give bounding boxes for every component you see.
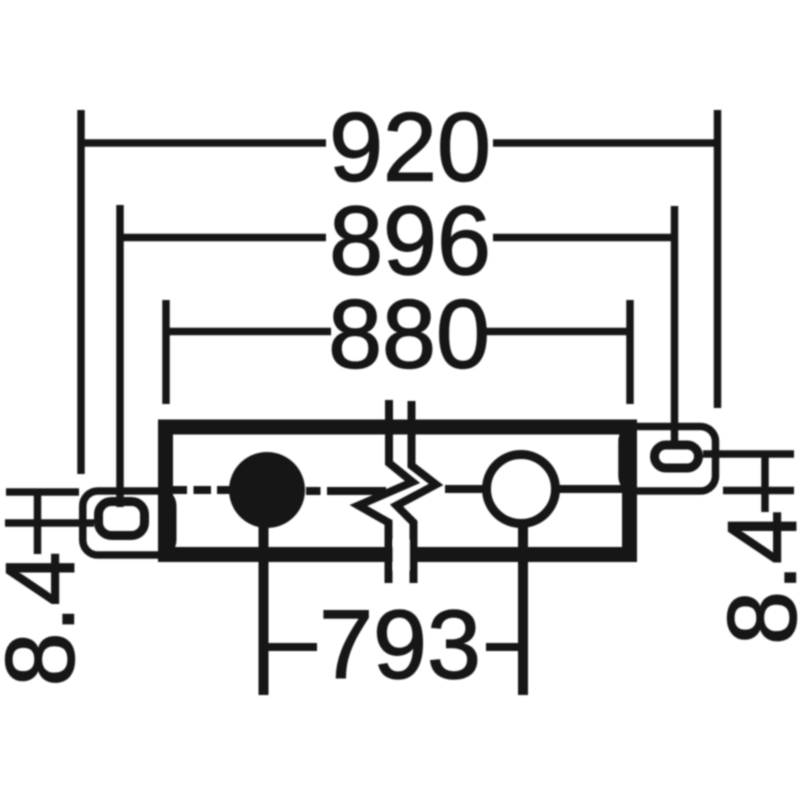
svg-text:793: 793 bbox=[319, 590, 481, 699]
svg-text:880: 880 bbox=[328, 279, 490, 388]
svg-text:8.4: 8.4 bbox=[707, 510, 800, 645]
svg-text:8.4: 8.4 bbox=[0, 552, 94, 687]
